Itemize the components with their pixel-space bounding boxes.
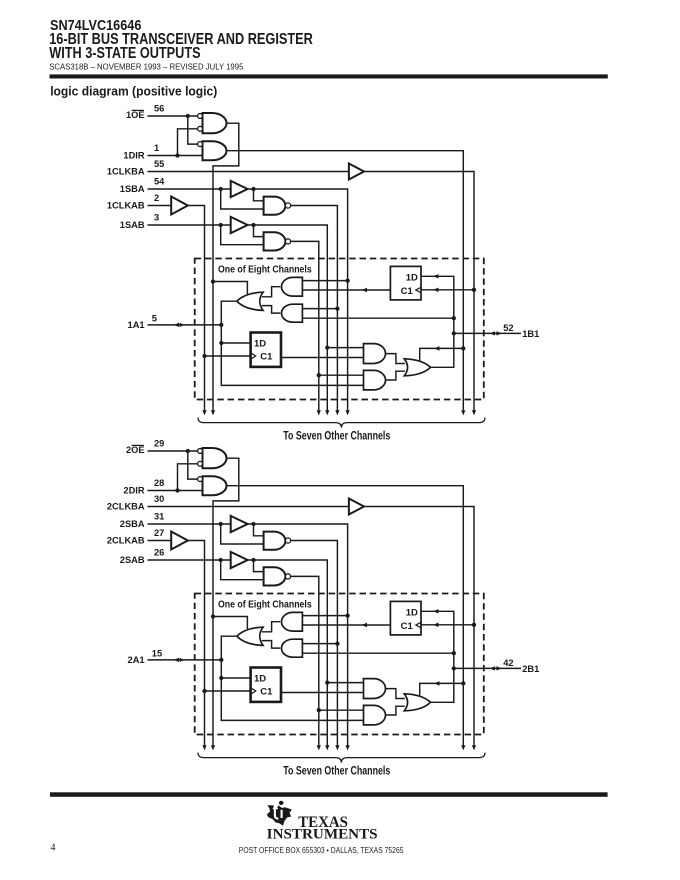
svg-text:2SAB: 2SAB (120, 555, 145, 565)
svg-text:POST OFFICE BOX 655303 • DALLA: POST OFFICE BOX 655303 • DALLAS, TEXAS 7… (239, 846, 404, 855)
svg-text:INSTRUMENTS: INSTRUMENTS (267, 826, 378, 842)
svg-text:2OE: 2OE (126, 445, 145, 455)
svg-text:27: 27 (154, 528, 164, 538)
svg-text:logic diagram (positive logic): logic diagram (positive logic) (50, 84, 217, 98)
svg-text:1CLKAB: 1CLKAB (107, 200, 145, 210)
svg-text:15: 15 (152, 649, 162, 659)
svg-text:2A1: 2A1 (128, 655, 145, 665)
svg-text:29: 29 (154, 438, 164, 448)
svg-text:1SAB: 1SAB (120, 220, 145, 230)
svg-text:1A1: 1A1 (128, 320, 145, 330)
svg-text:1OE: 1OE (126, 110, 145, 120)
svg-text:4: 4 (51, 843, 56, 854)
svg-text:54: 54 (154, 176, 165, 186)
svg-text:2: 2 (154, 193, 159, 203)
svg-text:1DIR: 1DIR (123, 150, 144, 160)
svg-text:2CLKAB: 2CLKAB (107, 535, 145, 545)
svg-text:2DIR: 2DIR (123, 485, 144, 495)
svg-text:1B1: 1B1 (522, 329, 539, 339)
svg-text:WITH 3-STATE OUTPUTS: WITH 3-STATE OUTPUTS (49, 45, 200, 62)
svg-text:1CLKBA: 1CLKBA (107, 166, 145, 176)
svg-text:30: 30 (154, 494, 164, 504)
svg-text:26: 26 (154, 547, 164, 557)
svg-text:42: 42 (503, 658, 513, 668)
svg-text:2B1: 2B1 (522, 664, 539, 674)
svg-text:SCAS318B – NOVEMBER 1993 – REV: SCAS318B – NOVEMBER 1993 – REVISED JULY … (49, 63, 244, 72)
svg-text:52: 52 (503, 323, 513, 333)
svg-text:3: 3 (154, 212, 159, 222)
svg-text:2SBA: 2SBA (120, 519, 145, 529)
svg-text:31: 31 (154, 511, 164, 521)
svg-text:2CLKBA: 2CLKBA (107, 501, 145, 511)
svg-text:1: 1 (154, 143, 159, 153)
svg-text:55: 55 (154, 159, 164, 169)
svg-text:1SBA: 1SBA (120, 184, 145, 194)
svg-text:5: 5 (152, 314, 157, 324)
svg-text:56: 56 (154, 103, 164, 113)
svg-text:28: 28 (154, 478, 164, 488)
